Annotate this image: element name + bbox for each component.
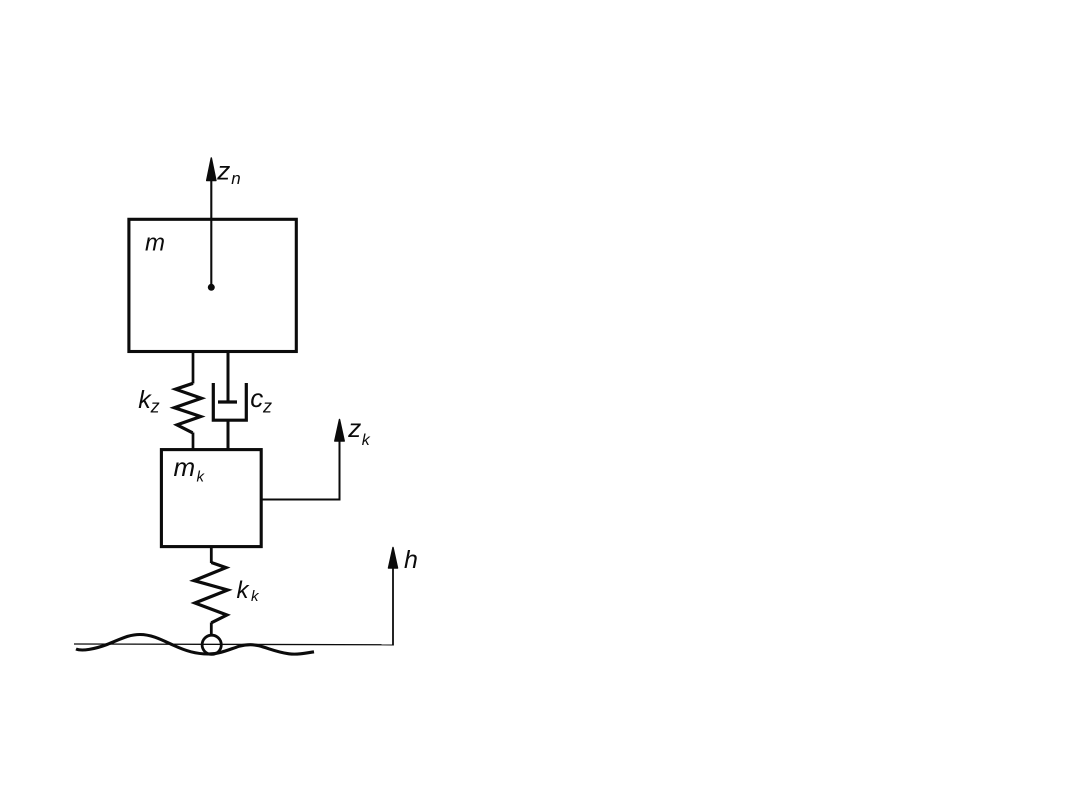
wire spring k_z to m_k — [192, 433, 195, 451]
spring k_k — [194, 563, 228, 623]
wire m_k to spring k_k — [210, 547, 213, 564]
svg-text:m: m — [145, 230, 165, 257]
h arrow stem — [392, 566, 394, 646]
wire spring k_k to wheel — [210, 623, 213, 636]
wire damper to m_k — [227, 420, 230, 450]
h arrow head — [389, 548, 398, 569]
mass m_k box — [161, 450, 261, 547]
svg-text:z: z — [347, 413, 361, 443]
svg-text:z: z — [150, 397, 160, 417]
svg-text:k: k — [362, 432, 371, 449]
svg-text:n: n — [231, 169, 240, 188]
arrow z_k head — [335, 420, 344, 442]
road wavy profile — [76, 635, 314, 655]
datum ground line — [74, 643, 393, 646]
arrow z_n head — [207, 158, 216, 181]
mass m box — [129, 219, 296, 351]
svg-text:m: m — [174, 452, 196, 482]
damper c_z piston plate — [218, 400, 237, 403]
svg-text:k: k — [237, 577, 251, 604]
z_k takeoff wire — [262, 439, 340, 500]
svg-text:h: h — [404, 546, 418, 574]
center of mass dot — [208, 284, 215, 291]
damper c_z cylinder cup — [213, 383, 246, 420]
spring k_z — [174, 383, 201, 433]
svg-text:z: z — [262, 397, 272, 417]
svg-text:c: c — [250, 383, 263, 413]
arrow z_n stem — [210, 178, 212, 284]
wheel contact circle — [202, 635, 221, 654]
wire m to spring k_z — [192, 352, 195, 384]
svg-text:z: z — [216, 155, 230, 185]
damper c_z rod — [227, 352, 230, 403]
